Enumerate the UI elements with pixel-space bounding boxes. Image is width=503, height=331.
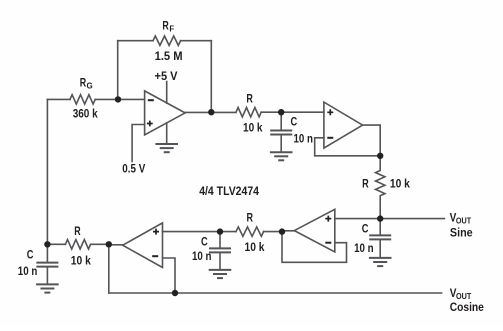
node: U1 output (208, 109, 214, 115)
resistor R2 vertical zigzag (10 k) (376, 156, 385, 219)
wire: C4 to ground (219, 253, 221, 269)
svg-text:10 k: 10 k (245, 240, 265, 254)
node: R3-C4 junction (217, 228, 223, 234)
wire: U4 output node down to cosine line (108, 244, 110, 293)
svg-text:C: C (291, 115, 298, 129)
wire: U2 inverting feedback (315, 138, 381, 156)
wire: RG input from left rail (47, 98, 70, 100)
resistor R3 zigzag (10 k) (236, 227, 264, 236)
ground symbol below C2 (271, 152, 292, 160)
wire: C4 top stub (219, 232, 221, 248)
resistor RG zigzag (70, 95, 95, 104)
node: U3 output (279, 228, 285, 234)
op-amp U1 minus sign (148, 99, 154, 101)
wire: op-amp U1 ground stub (166, 123, 168, 143)
node: U4 output (106, 241, 112, 247)
svg-text:10 n: 10 n (18, 264, 38, 278)
wire: R3 to C4 node and U4 + input (163, 231, 237, 233)
resistor R1 zigzag (10 k) (236, 108, 261, 117)
svg-text:10 n: 10 n (192, 249, 212, 263)
wire: feedback right vertical (210, 41, 212, 113)
wire: C2 to ground (280, 136, 282, 152)
wire: U4 inverting feedback down (163, 258, 176, 293)
svg-text:G: G (87, 81, 93, 91)
op-amp U4 plus sign (153, 229, 159, 235)
wire: U2 output down to node (363, 125, 381, 156)
wire: U4 output to node (109, 244, 123, 246)
svg-text:10 k: 10 k (71, 254, 91, 268)
node: left rail bottom (44, 241, 50, 247)
wire: +5V supply stub (166, 82, 168, 104)
capacitor C5 plates (37, 263, 57, 267)
ground symbol below U1 (156, 144, 177, 152)
resistor RF zigzag (153, 36, 181, 45)
svg-text:R: R (362, 177, 369, 191)
svg-text:C: C (27, 248, 34, 262)
svg-text:R: R (247, 210, 254, 224)
wire: C2 top stub (280, 112, 282, 129)
svg-text:10 n: 10 n (294, 132, 314, 146)
node: U2 output (377, 153, 383, 159)
wire: U3 output to node (282, 230, 294, 232)
wire: left node to R4 (47, 243, 65, 245)
op-amp U2 plus sign (327, 109, 333, 115)
svg-text:360 k: 360 k (73, 106, 98, 120)
wire: C3 top stub (379, 219, 381, 235)
op-amp U2 triangle (324, 102, 363, 148)
capacitor C2 plates (271, 131, 291, 135)
capacitor C4 plates (210, 248, 230, 252)
op-amp U1 triangle (145, 91, 186, 135)
wire: cosine output line (109, 292, 442, 294)
op-amp U3 triangle (points left) (294, 209, 335, 252)
resistor R4 zigzag (10 k) (65, 240, 90, 249)
svg-text:C: C (362, 221, 369, 235)
svg-text:4/4 TLV2474: 4/4 TLV2474 (199, 184, 259, 198)
svg-text:1.5 M: 1.5 M (155, 49, 183, 63)
wire: RG to op-amp inverting input (95, 98, 144, 100)
op-amp U4 minus sign (152, 255, 158, 257)
wire: C3 to ground (379, 240, 381, 257)
node: sine output (377, 215, 383, 221)
svg-text:+5 V: +5 V (155, 69, 178, 83)
wire: sine node to U3 + input (335, 218, 380, 220)
op-amp U2 minus sign (327, 137, 333, 139)
ground symbol below C5 (37, 284, 58, 292)
wire: feedback left vertical (117, 41, 119, 100)
svg-text:R: R (80, 76, 87, 90)
node: R1-C2 junction (278, 109, 284, 115)
svg-text:R: R (246, 92, 253, 106)
ground symbol below C3 (370, 258, 391, 266)
wire: R4 to U4 output node (91, 243, 109, 245)
svg-text:OUT: OUT (456, 216, 472, 226)
wire: C5 to ground (46, 268, 48, 284)
svg-text:Cosine: Cosine (450, 300, 484, 314)
wire: U1 output to R1 (185, 111, 236, 113)
wire: C5 top stub (46, 244, 48, 261)
op-amp U3 plus sign (325, 216, 331, 222)
svg-text:R: R (74, 224, 81, 238)
svg-text:10 k: 10 k (243, 121, 263, 135)
op-amp U3 minus sign (325, 242, 331, 244)
svg-text:F: F (169, 24, 174, 34)
capacitor C3 plates (370, 235, 390, 239)
svg-text:0.5 V: 0.5 V (122, 162, 145, 176)
wire: node to R3 (264, 231, 283, 233)
op-amp U4 triangle (points left) (123, 223, 163, 268)
op-amp U1 plus sign (147, 121, 153, 127)
svg-text:Sine: Sine (450, 225, 473, 239)
wire: top feedback horizontal right of RF (181, 40, 212, 42)
wire: left rail vertical (46, 99, 48, 244)
wire: U3 inverting feedback loop (282, 231, 347, 262)
ground symbol below C4 (210, 270, 231, 278)
svg-text:C: C (201, 234, 208, 248)
svg-text:10 n: 10 n (354, 241, 374, 255)
svg-text:10 k: 10 k (390, 177, 410, 191)
wire: R1 to node and op-amp U2 (261, 111, 324, 113)
wire: sine node to VOUT Sine (380, 218, 444, 220)
svg-text:R: R (162, 18, 169, 32)
node: RG / RF junction (115, 96, 121, 102)
wire: top feedback horizontal left of RF (118, 40, 153, 42)
wire: U1 noninverting input to 0.5V (132, 125, 145, 162)
node: cosine feedback junction (172, 290, 178, 296)
